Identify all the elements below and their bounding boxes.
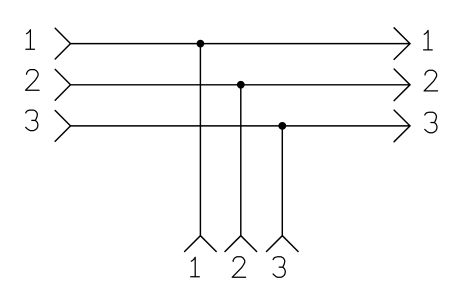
junction dot on wire 2 (237, 81, 245, 89)
wire tap 3 vertical (281, 126, 283, 236)
label left 3 (26, 110, 38, 131)
wire tap 1 vertical (199, 44, 201, 236)
bottom connector pin 3 (267, 236, 299, 252)
label right 1 (424, 30, 433, 50)
right connector pin 2 (394, 69, 410, 101)
right connector pin 3 (394, 110, 410, 142)
left connector pin 2 (55, 69, 70, 100)
label right 2 (424, 70, 437, 91)
left connector pin 1 (55, 28, 70, 59)
wire 2 horizontal (71, 84, 411, 86)
junction dot on wire 3 (278, 122, 286, 130)
junction dot on wire 1 (197, 40, 205, 48)
label right 3 (425, 112, 437, 133)
label bottom 1 (191, 257, 200, 277)
wire 1 horizontal (71, 43, 411, 45)
label bottom 2 (232, 257, 245, 278)
label bottom 3 (273, 257, 285, 278)
label left 2 (26, 70, 39, 91)
bottom connector pin 2 (225, 236, 257, 252)
left connector pin 3 (55, 111, 70, 142)
bottom connector pin 1 (185, 236, 217, 252)
wire tap 2 vertical (240, 85, 242, 236)
right connector pin 1 (394, 28, 410, 60)
wire 3 horizontal (71, 125, 411, 127)
label left 1 (26, 30, 35, 50)
